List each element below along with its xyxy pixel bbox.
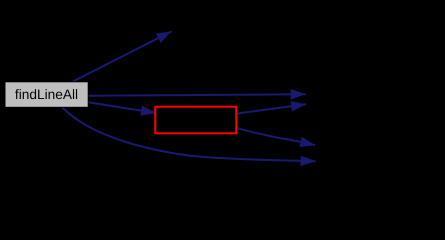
node (red highlighted, truncated): [155, 107, 236, 134]
node findLineAll (current node, grey): [5, 82, 88, 108]
wire: edge red node -> lower-right node: [237, 128, 315, 145]
wire: edge red node -> right node (lower arrow): [237, 104, 306, 113]
wire: curved edge findLineAll -> bottom-right node: [62, 107, 316, 161]
label findLineAll: [15, 87, 78, 102]
wire: edge findLineAll -> right node (upper arrow): [88, 94, 306, 96]
wire: edge findLineAll -> top node: [71, 31, 172, 82]
svg-text:findLineAll: findLineAll: [15, 87, 78, 102]
wire: edge findLineAll -> red node: [88, 102, 156, 113]
